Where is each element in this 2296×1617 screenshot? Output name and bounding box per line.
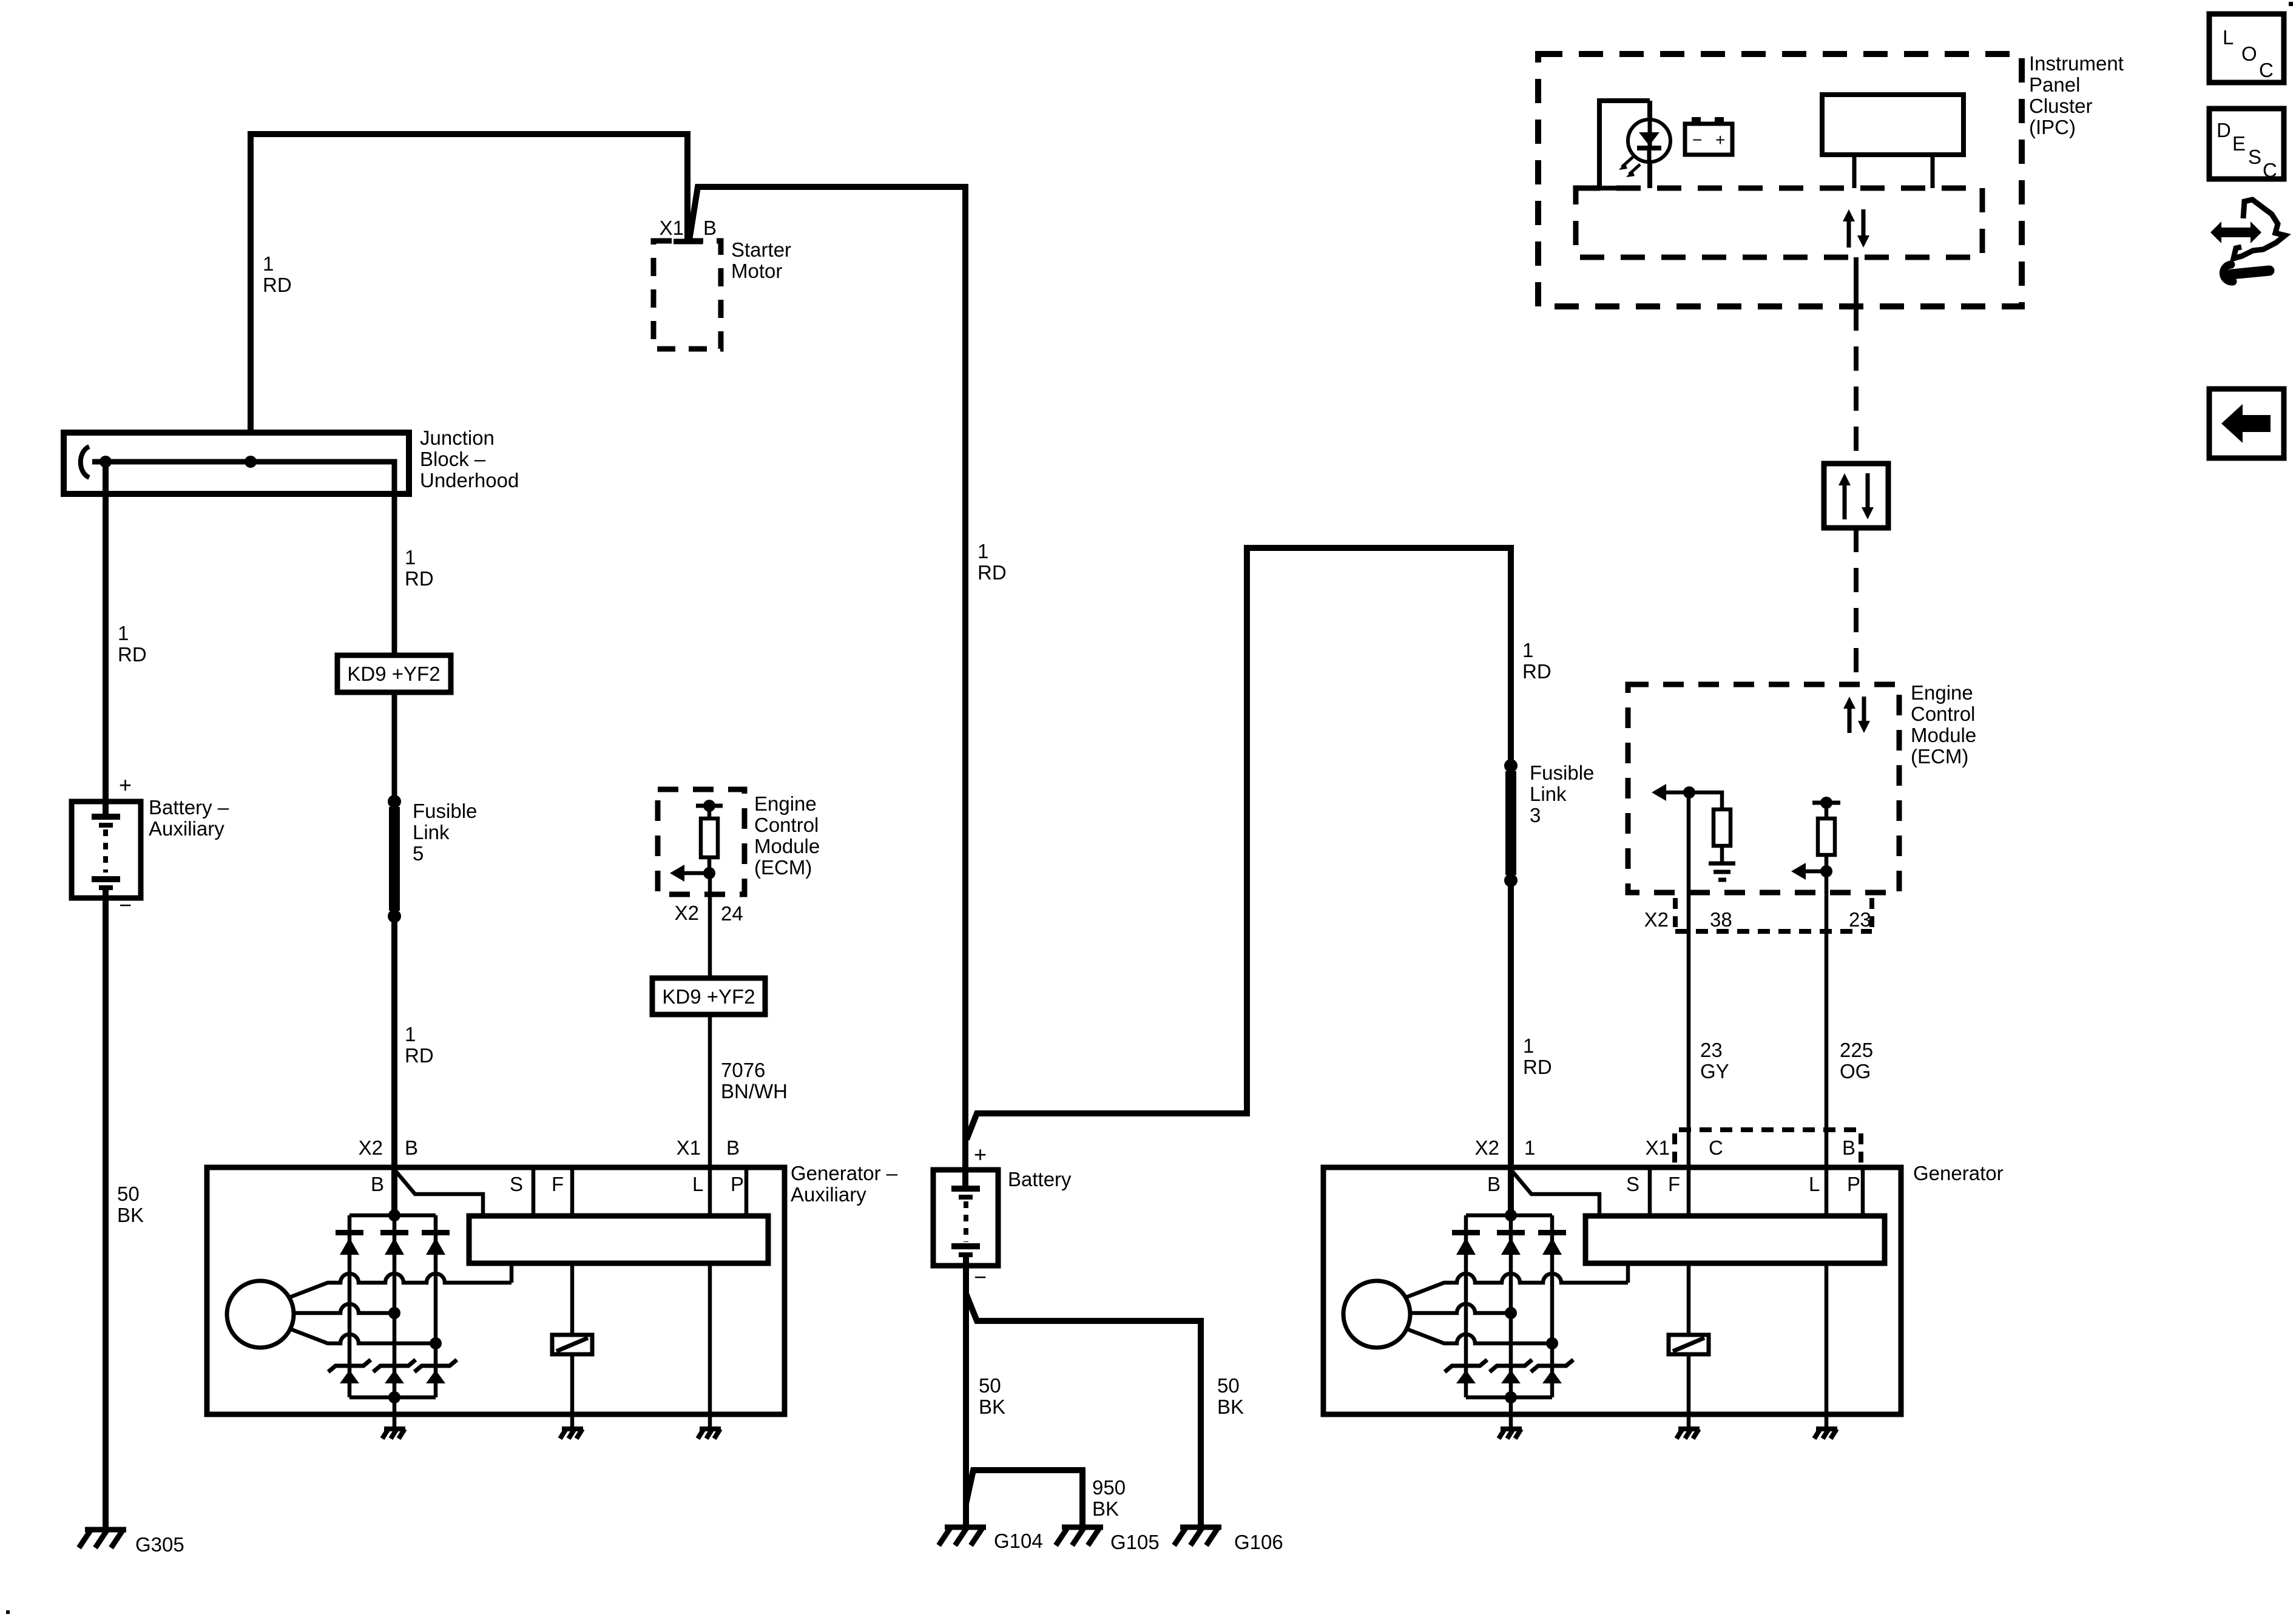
svg-text:7076: 7076 (721, 1059, 765, 1081)
svg-text:−: − (1692, 130, 1702, 149)
svg-text:C: C (2263, 159, 2277, 181)
svg-text:Block –: Block – (420, 448, 486, 470)
svg-text:+: + (119, 772, 132, 797)
svg-text:X1: X1 (1646, 1136, 1670, 1159)
svg-text:BN/WH: BN/WH (721, 1080, 788, 1102)
svg-text:1: 1 (1524, 1136, 1535, 1159)
svg-text:RD: RD (1522, 660, 1551, 683)
svg-text:X1: X1 (677, 1136, 701, 1159)
svg-text:Auxiliary: Auxiliary (149, 817, 225, 840)
svg-text:BK: BK (117, 1204, 144, 1226)
svg-text:Underhood: Underhood (420, 469, 519, 491)
svg-text:S: S (510, 1173, 523, 1195)
svg-text:P: P (731, 1173, 744, 1195)
svg-text:Cluster: Cluster (2029, 95, 2093, 117)
svg-text:38: 38 (1710, 908, 1732, 931)
svg-text:(ECM): (ECM) (754, 856, 812, 879)
svg-text:(ECM): (ECM) (1911, 745, 1968, 768)
svg-text:50: 50 (979, 1374, 1001, 1397)
svg-text:BK: BK (1092, 1497, 1119, 1520)
svg-text:Module: Module (754, 835, 820, 857)
svg-text:3: 3 (1530, 804, 1541, 826)
svg-text:X2: X2 (675, 902, 699, 924)
svg-text:225: 225 (1840, 1039, 1873, 1061)
svg-text:OG: OG (1840, 1060, 1871, 1082)
svg-text:KD9 +YF2: KD9 +YF2 (347, 663, 440, 685)
svg-text:B: B (1842, 1136, 1855, 1159)
svg-text:C: C (1709, 1136, 1723, 1159)
svg-text:L: L (1809, 1173, 1820, 1195)
svg-text:B: B (703, 217, 717, 239)
svg-text:BK: BK (1217, 1396, 1244, 1418)
svg-text:RD: RD (405, 1044, 434, 1067)
svg-text:Auxiliary: Auxiliary (791, 1183, 866, 1206)
svg-text:GY: GY (1700, 1060, 1729, 1082)
svg-text:L: L (2223, 26, 2234, 49)
svg-text:RD: RD (263, 274, 292, 296)
svg-text:S: S (1626, 1173, 1639, 1195)
svg-text:Control: Control (754, 814, 819, 836)
svg-text:−: − (119, 893, 132, 917)
svg-text:Engine: Engine (754, 792, 817, 815)
svg-text:RD: RD (1523, 1056, 1552, 1078)
svg-text:1: 1 (1523, 1035, 1534, 1057)
svg-text:O: O (2241, 42, 2257, 65)
svg-text:G106: G106 (1234, 1531, 1283, 1553)
svg-text:1: 1 (977, 540, 988, 562)
svg-text:23: 23 (1700, 1039, 1723, 1061)
svg-text:50: 50 (117, 1183, 140, 1205)
svg-text:G105: G105 (1110, 1531, 1160, 1553)
svg-text:X2: X2 (1475, 1136, 1499, 1159)
svg-text:Starter: Starter (731, 238, 791, 261)
svg-text:X1: X1 (660, 217, 684, 239)
svg-text:S: S (2248, 146, 2261, 168)
svg-text:F: F (552, 1173, 564, 1195)
svg-text:G305: G305 (135, 1533, 184, 1556)
svg-text:RD: RD (118, 643, 147, 666)
svg-text:D: D (2217, 119, 2231, 141)
svg-text:G104: G104 (994, 1530, 1043, 1552)
svg-text:L: L (692, 1173, 703, 1195)
svg-text:Panel: Panel (2029, 73, 2080, 96)
svg-text:B: B (405, 1136, 418, 1159)
svg-text:1: 1 (1522, 639, 1533, 661)
svg-text:Motor: Motor (731, 260, 782, 282)
svg-text:C: C (2259, 59, 2274, 81)
svg-text:24: 24 (721, 902, 743, 925)
svg-text:+: + (1715, 130, 1725, 149)
svg-text:5: 5 (413, 842, 424, 865)
svg-text:950: 950 (1092, 1476, 1126, 1499)
svg-text:RD: RD (405, 567, 434, 590)
svg-text:Junction: Junction (420, 427, 495, 449)
svg-text:Battery: Battery (1008, 1168, 1072, 1190)
svg-text:B: B (1487, 1173, 1501, 1195)
svg-text:P: P (1847, 1173, 1860, 1195)
svg-text:(IPC): (IPC) (2029, 116, 2076, 138)
svg-text:Generator –: Generator – (791, 1162, 898, 1184)
svg-text:Link: Link (1530, 783, 1567, 805)
svg-text:+: + (974, 1142, 987, 1167)
svg-text:F: F (1668, 1173, 1680, 1195)
svg-text:23: 23 (1849, 908, 1871, 931)
svg-text:E: E (2232, 132, 2246, 155)
svg-text:Battery –: Battery – (149, 796, 229, 819)
svg-text:−: − (974, 1264, 987, 1289)
svg-text:Module: Module (1911, 724, 1976, 746)
svg-text:1: 1 (405, 546, 416, 569)
svg-text:Fusible: Fusible (1530, 761, 1594, 784)
svg-text:X2: X2 (1644, 908, 1669, 931)
svg-text:Instrument: Instrument (2029, 52, 2124, 75)
svg-text:Link: Link (413, 821, 450, 843)
svg-text:1: 1 (118, 622, 129, 644)
svg-text:1: 1 (405, 1023, 416, 1045)
svg-text:Control: Control (1911, 703, 1975, 725)
svg-text:Generator: Generator (1913, 1162, 2004, 1184)
svg-text:RD: RD (977, 561, 1007, 584)
svg-text:BK: BK (979, 1396, 1005, 1418)
svg-text:KD9 +YF2: KD9 +YF2 (662, 985, 755, 1008)
svg-text:B: B (371, 1173, 384, 1195)
svg-text:X2: X2 (359, 1136, 383, 1159)
svg-text:Engine: Engine (1911, 681, 1973, 704)
svg-text:1: 1 (263, 252, 274, 275)
svg-text:50: 50 (1217, 1374, 1240, 1397)
svg-text:Fusible: Fusible (413, 800, 477, 822)
svg-text:B: B (726, 1136, 740, 1159)
